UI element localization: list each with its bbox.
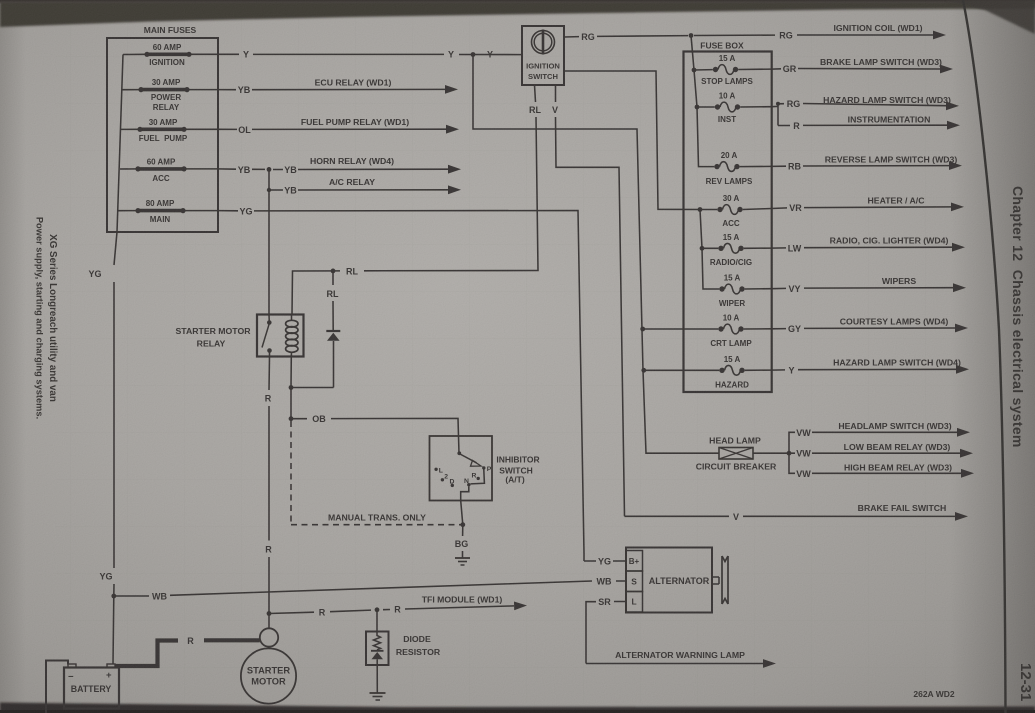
fuse 30 AMP FUEL PUMP: [121, 118, 218, 143]
wire YB to ECU relay: [218, 78, 458, 96]
node RG junction: [689, 33, 694, 38]
inhibitor switch terminal L: [434, 468, 443, 475]
wire R to instrumentation: [778, 114, 960, 131]
wire LW to radio cig lighter: [772, 236, 965, 254]
starter relay coil: [286, 315, 298, 388]
diode resistor: [366, 610, 441, 693]
fuse 15A HAZARD: [641, 355, 771, 390]
fuse box ACC bus: [700, 210, 719, 290]
wire ignition ACC feed: [564, 71, 700, 210]
node diode resistor junction: [375, 607, 380, 612]
wire R to TFI module: [269, 595, 527, 618]
main fuses box: [107, 25, 218, 232]
wire YB branch to A/C relay: [267, 169, 461, 195]
inhibitor switch terminal P: [482, 466, 492, 473]
wire VY to wipers: [772, 276, 966, 294]
node YB junction: [267, 167, 272, 172]
node Y junction: [471, 52, 476, 57]
fuse box: [684, 41, 772, 393]
wire VW to low beam relay: [789, 442, 973, 459]
ground below diode resistor: [370, 693, 386, 700]
main fuse bus: [117, 55, 123, 233]
battery: [64, 664, 119, 709]
wire manual trans only (dashed): [291, 421, 463, 525]
wire N terminal to BG ground: [455, 470, 485, 558]
wire RG to hazard lamp switch: [772, 95, 959, 126]
inhibitor switch (A/T): [430, 436, 540, 501]
wire Y battery feed to CRT/HAZARD fuses and head lamp breaker: [473, 55, 719, 454]
ground below inhibitor switch: [455, 558, 470, 565]
fuse 10A INST: [697, 92, 772, 125]
battery earth cable: [46, 661, 68, 713]
wire OL to fuel pump relay: [218, 117, 459, 135]
alternator drive belt: [712, 556, 728, 604]
node coil/diode bottom junction: [289, 385, 334, 390]
fuse 15A WIPER: [719, 274, 772, 309]
inhibitor switch terminal 2: [441, 474, 449, 482]
alternator: [626, 548, 712, 613]
battery cable R (thick): [115, 636, 260, 666]
head lamp circuit breaker: [696, 436, 777, 472]
wire SR to alternator L and warning lamp: [586, 597, 776, 668]
ignition switch: [522, 26, 564, 85]
wire VW to high beam relay: [789, 453, 974, 479]
right page-edge rule: [963, 0, 1006, 713]
inhibitor switch terminal R: [472, 473, 480, 480]
top dark band: [0, 0, 1035, 27]
fuse 20A REV LAMPS: [706, 151, 772, 186]
wire OB to inhibitor switch: [289, 388, 459, 454]
fuse 60 AMP IGNITION: [123, 43, 218, 67]
wire VR to heater: [772, 196, 964, 214]
wire R starter relay to starter motor: [265, 357, 273, 629]
wire RG from ignition switch: [564, 23, 946, 42]
starter motor relay: [176, 315, 304, 357]
bottom dark band: [0, 703, 1035, 713]
wire WB to alternator S: [114, 576, 626, 601]
wire Y ignition feed: [218, 50, 522, 60]
fuse 15A STOP LAMPS: [694, 54, 772, 86]
wire RL ignition to starter relay coil: [292, 85, 541, 315]
fuse 10A CRT LAMP: [640, 314, 771, 349]
inhibitor switch terminal N: [464, 478, 470, 487]
fuse 60 AMP ACC: [120, 158, 218, 184]
wire YB to horn relay: [218, 156, 461, 175]
wire YG main feed: [218, 206, 626, 566]
wire YB down to starter relay: [268, 190, 270, 315]
inhibitor switch terminal D: [450, 479, 455, 487]
node YG label left column: [88, 232, 117, 596]
node WB junction: [111, 594, 116, 599]
wire GY to courtesy lamps: [772, 317, 968, 335]
fuse box feed bus from RG: [691, 36, 714, 167]
fuse 80 AMP MAIN: [118, 199, 218, 224]
wire battery positive riser: [112, 596, 115, 664]
wire Y to hazard lamp switch WD4: [772, 358, 969, 376]
fuse 30 AMP POWER RELAY: [122, 78, 218, 112]
wire RB to reverse lamp switch: [772, 154, 962, 171]
top-right dark corner: [945, 0, 1035, 34]
node TFI junction: [267, 611, 272, 616]
fuse 30A ACC: [698, 194, 772, 228]
starter motor: [241, 628, 296, 703]
wire V ignition to brake fail switch: [552, 85, 968, 522]
wire GR to brake lamp switch: [772, 57, 953, 74]
diode D1 across relay coil: [326, 269, 340, 388]
fuse 15A RADIO/CIG: [700, 233, 772, 267]
wire VW to headlamp switch: [753, 421, 970, 456]
